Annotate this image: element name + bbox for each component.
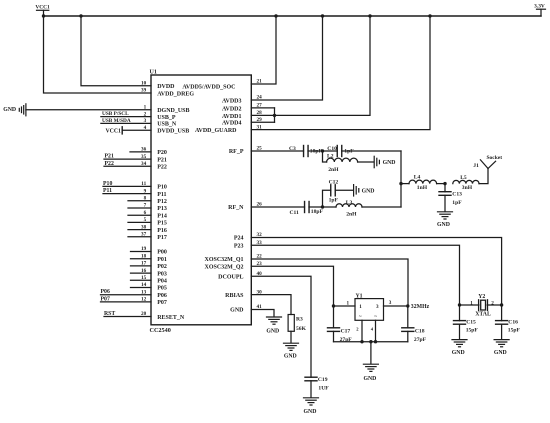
capacitor C16 15pF [501, 305, 503, 321]
wire RBIAS pin 30 to R3 [251, 295, 291, 315]
svg-text:18pF: 18pF [311, 209, 324, 215]
svg-text:10: 10 [141, 81, 147, 87]
wire P20 stub [130, 151, 151, 153]
inductor L4 1nH [401, 183, 409, 185]
ground after C12 [353, 185, 355, 196]
junction on rail x=276 [274, 14, 277, 17]
svg-text:1: 1 [359, 304, 362, 310]
svg-text:56K: 56K [296, 326, 307, 332]
wire GND to DGND_USB pin 1 [26, 109, 151, 111]
wire RF_N pin 26 to C11 [251, 206, 304, 208]
svg-text:AVDD4: AVDD4 [222, 121, 242, 127]
wire L3 to combiner [362, 206, 401, 208]
wire P13 stub [128, 207, 151, 209]
svg-text:P14: P14 [157, 213, 167, 219]
wire P24 pin 32 to Y2 right [251, 238, 501, 306]
svg-text:C15: C15 [466, 320, 476, 326]
capacitor C17 27pF [333, 306, 335, 328]
svg-text:P12: P12 [157, 199, 167, 205]
svg-text:P00: P00 [157, 250, 167, 256]
wire P23 pin 33 to Y2 left [251, 245, 459, 305]
svg-text:2: 2 [356, 326, 359, 331]
wire P14 stub [128, 214, 151, 216]
svg-text:GND: GND [363, 376, 376, 382]
svg-text:1UF: 1UF [318, 386, 329, 392]
svg-text:27: 27 [257, 103, 263, 109]
wire P07 [101, 301, 152, 303]
svg-text:P16: P16 [157, 228, 167, 234]
wire P00 stub [131, 251, 152, 253]
svg-text:P11: P11 [157, 192, 166, 198]
ground below Y1 [363, 363, 378, 365]
svg-text:C17: C17 [341, 328, 351, 334]
svg-text:P24: P24 [234, 236, 244, 242]
wire C13 to ground [444, 195, 446, 211]
wire DCOUPL pin 40 to C19 [251, 276, 311, 377]
svg-text:P10: P10 [157, 185, 167, 191]
svg-text:GND: GND [452, 350, 465, 356]
capacitor C13 1pF shunt [444, 184, 446, 192]
wire P17 stub [128, 236, 151, 238]
ground below C13 [438, 211, 453, 213]
wire GND pin 41 [251, 310, 274, 317]
svg-text:XTAL: XTAL [475, 311, 491, 317]
svg-text:P05: P05 [157, 286, 167, 292]
node Y1 rail right leg [374, 340, 377, 343]
svg-text:C13: C13 [452, 192, 462, 198]
svg-text:1nH: 1nH [417, 185, 428, 191]
wire P11 [103, 193, 151, 195]
svg-text:1pF: 1pF [452, 200, 462, 206]
wire C11 to L3 [309, 206, 336, 208]
svg-text:27pF: 27pF [414, 337, 427, 343]
ground after L2 [373, 156, 375, 167]
svg-text:DCOUPL: DCOUPL [218, 274, 243, 280]
wire top power rail [44, 15, 542, 17]
wire P03 stub [131, 272, 152, 274]
node Y2 left [458, 303, 461, 306]
svg-text:J1: J1 [473, 163, 479, 169]
svg-text:31: 31 [257, 124, 263, 130]
capacitor C18 27pF [407, 306, 409, 328]
svg-text:3nH: 3nH [462, 185, 473, 191]
svg-text:29: 29 [257, 117, 263, 123]
svg-text:AVDD3: AVDD3 [222, 98, 242, 104]
node after C11 [321, 205, 324, 208]
svg-text:~: ~ [359, 313, 362, 319]
svg-text:27pF: 27pF [340, 337, 353, 343]
svg-text:P22: P22 [157, 165, 167, 171]
wire L4 to C13 node [437, 183, 445, 185]
svg-text:Socket: Socket [487, 155, 503, 161]
svg-text:1pF: 1pF [329, 198, 339, 204]
svg-text:AVDD_GUARD: AVDD_GUARD [195, 128, 237, 134]
wire combiner vertical [400, 151, 402, 207]
svg-text:Y2: Y2 [478, 294, 485, 300]
svg-text:RF_N: RF_N [228, 205, 244, 211]
wire P04 stub [131, 279, 152, 281]
svg-text:AVDD_DREG: AVDD_DREG [157, 91, 194, 97]
capacitor C19 1UF [305, 376, 317, 378]
wire rail to AVDD_DREG pin 39 [44, 16, 152, 93]
wire L2 to ground [358, 161, 374, 163]
wire USB_N pin 3 [101, 122, 151, 124]
wire L5 to antenna [479, 169, 488, 184]
wire P22 [104, 165, 151, 167]
ground below C19 [304, 397, 319, 399]
svg-text:USB_P: USB_P [157, 115, 176, 121]
ground at pin 41 [267, 316, 282, 318]
wire R3 to ground [290, 331, 292, 343]
node after C3 [321, 149, 324, 152]
wire P12 stub [128, 200, 151, 202]
svg-text:3: 3 [376, 304, 379, 310]
ground below C16 [494, 339, 509, 341]
junction on rail at VCC1 [42, 14, 45, 17]
svg-text:RBIAS: RBIAS [225, 293, 244, 299]
capacitor C15 15pF [459, 305, 461, 321]
wire P06 [101, 294, 152, 296]
svg-text:24: 24 [257, 95, 263, 101]
node combiner [399, 182, 402, 185]
op-amp U1 CC2540 IC body [151, 75, 251, 325]
svg-text:CC2540: CC2540 [150, 327, 171, 334]
wire crystal Y1 left lead [334, 305, 356, 307]
node antenna filter [443, 182, 446, 185]
node Y1 left [332, 304, 335, 307]
svg-text:21: 21 [257, 79, 263, 85]
svg-text:XOSC32M_Q1: XOSC32M_Q1 [205, 257, 244, 263]
wire C16 to ground [501, 324, 503, 339]
svg-text:4: 4 [371, 326, 374, 331]
wire C10 to combiner [342, 150, 401, 152]
wire C12 to ground [335, 189, 353, 191]
wire C19 to ground [310, 381, 312, 398]
resistor R3 56K [288, 315, 294, 332]
wire P10 [103, 185, 151, 187]
wire rail to DVDD pin 10 [81, 16, 151, 86]
svg-text:C16: C16 [508, 320, 518, 326]
svg-text:P15: P15 [157, 221, 167, 227]
wire rail to AVDD_GUARD pin 31 [251, 16, 430, 130]
svg-text:AVDD1: AVDD1 [222, 114, 242, 120]
wire C15 to ground [459, 324, 461, 339]
svg-text:GND: GND [362, 188, 375, 194]
wire P05 stub [131, 287, 152, 289]
svg-text:P04: P04 [157, 279, 167, 285]
ground below C15 [452, 339, 467, 341]
svg-text:GND: GND [230, 308, 244, 314]
svg-text:C18: C18 [415, 328, 425, 334]
junction on rail x=81 [79, 14, 82, 17]
node Y1 rail stem [369, 340, 372, 343]
svg-text:28: 28 [257, 110, 263, 116]
svg-text:R3: R3 [296, 317, 303, 323]
junction on rail x=430 [428, 14, 431, 17]
wire XOSC32M_Q1 pin 22 to crystal right [251, 259, 408, 306]
wire P15 stub [128, 221, 151, 223]
wire Y1 bottom leg pin 2 [361, 320, 363, 341]
wire USB_P pin 2 [101, 116, 151, 118]
svg-text:P23: P23 [234, 244, 244, 250]
ground below R3 [284, 342, 299, 344]
svg-text:P06: P06 [157, 293, 167, 299]
svg-text:3: 3 [389, 300, 392, 306]
wire Y1 rail to ground [370, 342, 372, 364]
svg-text:P21: P21 [157, 157, 167, 163]
svg-text:C11: C11 [290, 210, 300, 216]
wire Y1 bottom leg pin 4 [375, 320, 377, 341]
svg-text:AVDD2: AVDD2 [222, 106, 242, 112]
wire P02 stub [131, 265, 152, 267]
wire AVDD bus bar joining pins 27 28 29 [274, 108, 276, 122]
wire VCC1 to DVDD_USB pin 4 with port tick [121, 127, 123, 134]
svg-text:P17: P17 [157, 235, 167, 241]
wire C3 to C10 [308, 150, 337, 152]
wire rail to AVDD3 pin 24 [251, 16, 322, 100]
wire XOSC32M_Q2 pin 23 to crystal left [251, 266, 333, 306]
wire Y2 right lead [487, 304, 501, 306]
svg-text:RESET_N: RESET_N [157, 315, 185, 321]
wire rail to AVDD junction [275, 16, 371, 115]
svg-text:P07: P07 [157, 300, 167, 306]
wire AVDD2 pin 27 stub [251, 107, 274, 109]
wire P01 stub [131, 258, 152, 260]
svg-text:RF_P: RF_P [229, 149, 244, 155]
svg-text:DGND_USB: DGND_USB [157, 108, 189, 114]
svg-text:DVDD_USB: DVDD_USB [157, 129, 189, 135]
svg-text:C19: C19 [318, 377, 328, 383]
svg-text:VCC1: VCC1 [35, 4, 50, 10]
svg-text:P20: P20 [157, 150, 167, 156]
node Y1 right [406, 304, 409, 307]
node Y2 right [500, 303, 503, 306]
wire P16 stub [128, 229, 151, 231]
node Y1 rail left leg [360, 340, 363, 343]
svg-text:15pF: 15pF [466, 328, 479, 334]
wire crystal Y1 right lead [384, 305, 408, 307]
svg-text:GND: GND [266, 328, 279, 334]
junction on rail x=370 [368, 14, 371, 17]
svg-text:P01: P01 [157, 257, 167, 263]
svg-text:~: ~ [374, 313, 377, 319]
svg-text:DVDD: DVDD [157, 84, 175, 90]
svg-text:C3: C3 [289, 146, 296, 152]
wire AVDD4 pin 29 stub [251, 121, 274, 123]
svg-text:VCC1: VCC1 [106, 128, 122, 134]
svg-text:XOSC32M_Q2: XOSC32M_Q2 [205, 264, 244, 270]
svg-text:GND: GND [383, 160, 396, 166]
svg-text:U1: U1 [150, 70, 157, 76]
wire RST to RESET_N pin 20 [104, 316, 151, 318]
svg-text:GND: GND [304, 409, 317, 415]
svg-text:15pF: 15pF [508, 328, 521, 334]
svg-text:2nH: 2nH [328, 167, 339, 173]
svg-text:C10: C10 [327, 146, 337, 152]
wire rail to AVDD5/AVDD_SOC pin 21 [251, 16, 276, 84]
svg-text:GND: GND [3, 107, 16, 113]
wire P21 [104, 158, 151, 160]
svg-text:2nH: 2nH [346, 211, 357, 217]
svg-text:P02: P02 [157, 264, 167, 270]
svg-text:39: 39 [141, 88, 147, 94]
wire Y2 left lead [460, 304, 479, 306]
node AVDD junction [273, 114, 276, 117]
svg-text:32MHz: 32MHz [411, 304, 430, 310]
svg-text:AVDD5/AVDD_SOC: AVDD5/AVDD_SOC [182, 85, 235, 91]
svg-text:USB_N: USB_N [157, 122, 177, 128]
svg-text:GND: GND [437, 222, 450, 228]
svg-text:GND: GND [494, 350, 507, 356]
wire AVDD1 pin 28 stub [251, 114, 274, 116]
junction on rail x=322.5 [321, 14, 324, 17]
svg-text:GND: GND [284, 353, 297, 359]
wire Y1 ground rail [334, 341, 408, 343]
wire RF_P pin 25 to C3 [251, 150, 303, 152]
svg-text:P13: P13 [157, 206, 167, 212]
svg-text:P03: P03 [157, 271, 167, 277]
